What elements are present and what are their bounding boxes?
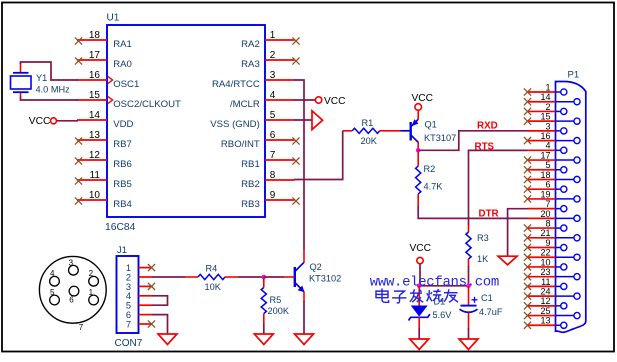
svg-text:20K: 20K xyxy=(361,136,378,146)
svg-text:RB2: RB2 xyxy=(241,179,260,190)
svg-text:6: 6 xyxy=(69,296,74,305)
svg-text:15: 15 xyxy=(540,112,550,122)
svg-text:7: 7 xyxy=(126,319,131,329)
svg-text:RTS: RTS xyxy=(475,142,495,153)
svg-text:10K: 10K xyxy=(205,282,222,292)
svg-text:Y1: Y1 xyxy=(36,73,47,83)
svg-text:15: 15 xyxy=(89,90,101,101)
svg-text:7: 7 xyxy=(545,199,550,209)
svg-text:4.7uF: 4.7uF xyxy=(479,307,503,317)
svg-text:RBO/INT: RBO/INT xyxy=(221,139,260,150)
svg-text:11: 11 xyxy=(90,170,101,181)
svg-text:RA3: RA3 xyxy=(241,59,260,70)
svg-text:16: 16 xyxy=(540,131,550,141)
svg-text:VCC: VCC xyxy=(410,243,432,254)
svg-text:4: 4 xyxy=(270,90,276,101)
svg-text:11: 11 xyxy=(541,277,550,287)
svg-text:2: 2 xyxy=(545,102,550,112)
svg-text:Q1: Q1 xyxy=(425,120,437,130)
svg-text:16: 16 xyxy=(89,70,101,81)
svg-text:/MCLR: /MCLR xyxy=(230,99,260,110)
svg-text:U1: U1 xyxy=(107,13,120,24)
svg-text:P1: P1 xyxy=(568,70,580,81)
svg-text:12: 12 xyxy=(540,296,550,306)
svg-text:R1: R1 xyxy=(362,118,374,128)
svg-text:13: 13 xyxy=(540,316,550,326)
svg-text:R4: R4 xyxy=(206,264,218,274)
svg-text:www.elecfans.com: www.elecfans.com xyxy=(370,275,499,291)
svg-text:2: 2 xyxy=(270,50,276,61)
svg-text:9: 9 xyxy=(270,190,276,201)
svg-text:5: 5 xyxy=(270,110,276,121)
svg-text:1: 1 xyxy=(89,288,94,297)
svg-text:RA1: RA1 xyxy=(113,39,132,50)
svg-text:16C84: 16C84 xyxy=(105,222,136,233)
svg-text:R5: R5 xyxy=(270,295,282,305)
svg-text:8: 8 xyxy=(270,170,276,181)
svg-text:R2: R2 xyxy=(424,164,436,174)
svg-text:4: 4 xyxy=(50,269,55,278)
svg-text:22: 22 xyxy=(540,248,550,258)
svg-text:1: 1 xyxy=(545,82,550,92)
svg-text:7: 7 xyxy=(270,150,276,161)
svg-text:R3: R3 xyxy=(477,233,489,243)
svg-text:19: 19 xyxy=(540,189,550,199)
svg-text:1: 1 xyxy=(270,30,276,41)
svg-text:12: 12 xyxy=(89,150,101,161)
svg-text:RB5: RB5 xyxy=(113,179,132,190)
svg-text:200K: 200K xyxy=(268,306,290,316)
svg-text:5: 5 xyxy=(545,160,550,170)
svg-text:3: 3 xyxy=(69,259,74,268)
svg-text:RB6: RB6 xyxy=(113,159,132,170)
svg-text:VCC: VCC xyxy=(324,96,346,107)
svg-text:2: 2 xyxy=(89,269,94,278)
svg-text:17: 17 xyxy=(540,150,550,160)
svg-text:VDD: VDD xyxy=(113,119,133,130)
svg-text:14: 14 xyxy=(89,110,101,121)
svg-text:7: 7 xyxy=(79,323,84,332)
svg-text:RXD: RXD xyxy=(477,121,498,132)
svg-text:KT3107: KT3107 xyxy=(424,133,456,143)
svg-text:5: 5 xyxy=(50,288,55,297)
svg-text:OSC2/CLKOUT: OSC2/CLKOUT xyxy=(113,99,181,110)
svg-text:10: 10 xyxy=(540,257,550,267)
svg-text:4.0 MHz: 4.0 MHz xyxy=(36,85,71,95)
svg-text:17: 17 xyxy=(89,50,101,61)
svg-text:VCC: VCC xyxy=(412,93,434,104)
svg-text:RB4: RB4 xyxy=(113,199,132,210)
svg-text:3: 3 xyxy=(270,70,276,81)
svg-text:RB3: RB3 xyxy=(241,199,260,210)
svg-text:5.6V: 5.6V xyxy=(433,310,453,320)
svg-text:Q2: Q2 xyxy=(310,262,322,272)
svg-text:C1: C1 xyxy=(481,293,493,303)
svg-text:4.7K: 4.7K xyxy=(424,182,444,192)
svg-text:DTR: DTR xyxy=(479,209,499,220)
svg-text:21: 21 xyxy=(540,228,550,238)
svg-text:RA0: RA0 xyxy=(113,59,132,70)
svg-text:6: 6 xyxy=(270,130,276,141)
svg-text:14: 14 xyxy=(540,92,550,102)
svg-text:18: 18 xyxy=(89,30,101,41)
svg-text:RB7: RB7 xyxy=(113,139,132,150)
svg-text:J1: J1 xyxy=(117,245,127,256)
svg-text:8: 8 xyxy=(545,218,550,228)
svg-text:9: 9 xyxy=(545,238,550,248)
svg-text:RA4/RTCC: RA4/RTCC xyxy=(212,79,260,90)
svg-text:13: 13 xyxy=(89,130,101,141)
svg-text:18: 18 xyxy=(540,170,550,180)
svg-text:VSS (GND): VSS (GND) xyxy=(210,119,260,130)
svg-text:OSC1: OSC1 xyxy=(113,79,139,90)
svg-text:RB1: RB1 xyxy=(241,159,260,170)
svg-text:3: 3 xyxy=(545,121,550,131)
svg-text:23: 23 xyxy=(540,267,550,277)
svg-text:CON7: CON7 xyxy=(115,338,143,349)
svg-text:RA2: RA2 xyxy=(241,39,260,50)
svg-text:25: 25 xyxy=(540,306,550,316)
svg-text:4: 4 xyxy=(545,141,550,151)
svg-text:20: 20 xyxy=(540,209,550,219)
svg-text:10: 10 xyxy=(89,190,101,201)
svg-text:6: 6 xyxy=(545,180,550,190)
svg-text:24: 24 xyxy=(540,287,550,297)
svg-text:1K: 1K xyxy=(477,254,489,264)
svg-text:VCC: VCC xyxy=(29,116,51,127)
svg-text:KT3102: KT3102 xyxy=(309,274,341,284)
